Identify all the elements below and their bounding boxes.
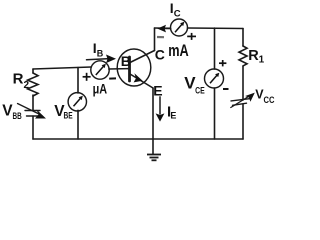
wire top horizontal left segment: [155, 27, 171, 29]
resistor R1: [239, 46, 247, 66]
transistor Q1 circle: [117, 49, 151, 86]
battery VCC arrow: [231, 97, 249, 108]
meter VBE circle: [68, 93, 86, 111]
arrowhead IC (points left): [157, 25, 166, 33]
battery VBB arrow: [18, 104, 41, 115]
battery VBB plates: [25, 110, 40, 112]
label plus VCE: [219, 62, 226, 64]
transistor collector diagonal: [130, 51, 155, 63]
svg-text:B: B: [121, 53, 131, 69]
wire VBE branch lower: [77, 110, 79, 139]
wire IB meter to base: [109, 68, 129, 70]
svg-text:C: C: [155, 46, 165, 62]
resistor R2: [28, 73, 39, 96]
label plus IC: [187, 35, 196, 37]
wire left vertical bottom: [32, 116, 34, 139]
arrowhead IB (points right): [106, 55, 116, 64]
svg-text:mA: mA: [168, 42, 189, 60]
arrowhead VBB (points down-right): [35, 110, 46, 119]
arrowhead emitter (points down-right): [134, 73, 143, 82]
needle IB: [96, 66, 104, 75]
wire emitter vertical: [152, 88, 154, 139]
transistor base bar: [128, 57, 131, 81]
label minus IB: [109, 77, 116, 79]
meter VCE circle: [205, 69, 224, 88]
label minus IC: [157, 36, 164, 38]
needle VBE: [74, 98, 82, 107]
svg-text:μA: μA: [93, 81, 108, 97]
wire top horizontal right segment: [188, 27, 244, 30]
wire right vertical top: [242, 29, 244, 47]
wire VCE branch lower: [214, 88, 216, 139]
wire right vertical middle: [242, 66, 244, 100]
arrowhead VCC (points up-right): [245, 93, 255, 102]
wire VBE branch upper: [77, 68, 79, 94]
arrow IE shaft: [159, 96, 161, 114]
wire base feed top-left horizontal: [33, 67, 91, 69]
wire right vertical bottom: [242, 105, 244, 140]
transistor emitter diagonal: [130, 74, 153, 88]
meter IB circle: [91, 61, 109, 79]
meter IC circle: [171, 19, 188, 36]
ground bars: [147, 154, 161, 156]
wire collector stub: [154, 28, 156, 51]
arrowhead IE (points down): [156, 113, 165, 121]
needle VCE: [210, 75, 218, 84]
arrow IC on wire shaft: [165, 27, 171, 29]
wire left vertical top stub: [32, 69, 34, 73]
wire VCE branch upper: [214, 28, 216, 69]
ground stem: [152, 139, 154, 154]
arrow IB over meter: [87, 59, 108, 60]
battery VCC plates: [231, 99, 251, 101]
wire left vertical middle: [32, 95, 34, 111]
label plus IB: [83, 76, 91, 78]
svg-text:E: E: [153, 83, 162, 99]
needle IC: [175, 24, 183, 33]
meter needles: [74, 22, 220, 107]
label minus VCE: [223, 88, 229, 90]
wire bottom horizontal: [33, 138, 243, 140]
